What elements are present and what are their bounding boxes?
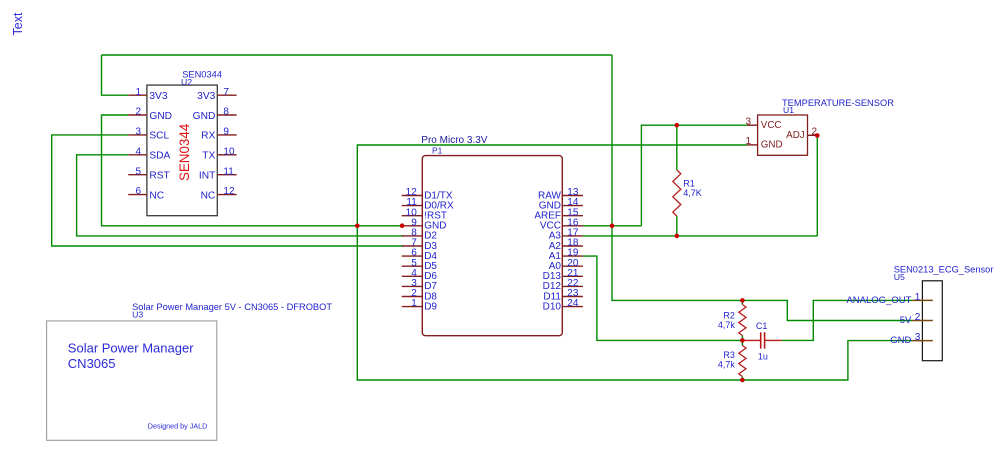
svg-text:5V: 5V [900, 315, 912, 326]
wire 5V long vertical to R2 top and U5 5V pin2 [612, 55, 912, 321]
U2 pin 12 NC [201, 186, 237, 201]
resistor R2 4,7k [718, 305, 746, 336]
wire GND branch down and right to U5 GND pin3 [357, 226, 912, 380]
P1 pin 2 D8 [402, 288, 438, 302]
P1 pin 3 D7 [402, 278, 438, 292]
U2 pin 9 RX [201, 127, 236, 142]
U2 pin 7 3V3 [197, 87, 236, 102]
P1 pin 23 D11 [543, 288, 583, 302]
U5 pin 3 GND [890, 332, 933, 346]
junction GND row / U1-U5 branch [355, 224, 360, 229]
junction R3 bottom / GND row [740, 378, 745, 383]
svg-text:D10: D10 [543, 301, 562, 312]
P1 pin 14 GND [539, 197, 583, 211]
IC U1 TEMPERATURE-SENSOR body [758, 115, 808, 155]
wire GND branch up to U1 GND pin1 [357, 145, 747, 226]
P1 pin 22 D12 [543, 278, 583, 292]
wire R3 bottom stub [741, 377, 743, 381]
wire from C1 right lead up to U5 ANALOG_OUT pin1 [782, 300, 913, 340]
svg-text:GND: GND [193, 111, 216, 122]
wire 5V drop to U2 pin1 3V3 [102, 55, 129, 95]
svg-text:D9: D9 [424, 301, 437, 312]
svg-text:VCC: VCC [761, 120, 782, 131]
svg-text:8: 8 [223, 107, 229, 118]
svg-text:6: 6 [135, 186, 141, 197]
U1 pin 2 ADJ [786, 127, 817, 141]
svg-text:GND: GND [761, 140, 783, 151]
U2 pin 1 3V3 [128, 87, 168, 102]
connector U5 SEN0213_ECG_Sensor body [922, 281, 942, 361]
junction R2 top / 5V row [740, 298, 745, 303]
svg-text:RX: RX [201, 131, 215, 142]
U5 pin 1 ANALOG_OUT [846, 292, 932, 306]
svg-text:3V3: 3V3 [197, 91, 215, 102]
capacitor C1 1u [742, 321, 782, 362]
P1 pin 7 D3 [402, 238, 438, 252]
svg-text:U2: U2 [181, 77, 192, 87]
svg-text:Designed by JALD: Designed by JALD [148, 422, 208, 431]
resistor R3 4,7k [718, 346, 746, 377]
IC U2 SEN0344 body [147, 85, 217, 216]
U2 reference label [181, 77, 192, 87]
svg-text:1: 1 [411, 298, 417, 309]
junction at P1 pin9 GND [400, 223, 405, 228]
wire R2 top stub [741, 300, 743, 304]
svg-text:SEN0213_ECG_Sensor: SEN0213_ECG_Sensor [894, 265, 994, 275]
svg-text:4,7k: 4,7k [718, 320, 736, 330]
wire R1 bottom lead [676, 216, 678, 236]
junction U1 ADJ pin2 [815, 133, 820, 138]
U2 inner vertical text SEN0344 [177, 123, 192, 181]
svg-text:1u: 1u [758, 351, 768, 361]
junction R1 bottom / A3 row [675, 234, 680, 239]
P1 pin 21 D13 [543, 268, 583, 282]
P1 pin 19 A1 [549, 248, 583, 262]
svg-text:7: 7 [223, 87, 229, 98]
wire A1 from P1 pin19 down to R2/R3 junction row [583, 256, 743, 340]
svg-text:1: 1 [135, 87, 141, 98]
svg-text:U5: U5 [894, 272, 905, 282]
svg-text:3: 3 [135, 127, 141, 138]
svg-text:U3: U3 [132, 309, 143, 319]
P1 pin 20 A0 [549, 258, 583, 272]
P1 pin 11 D0/RX [402, 197, 454, 211]
svg-text:GND: GND [149, 111, 172, 122]
P1 pin 6 D4 [402, 248, 438, 262]
P1 pin 17 A3 [549, 228, 583, 242]
U2 value label SEN0344 [182, 69, 222, 79]
U1 reference label [783, 105, 794, 115]
U2 pin 8 GND [193, 107, 237, 122]
U1 pin 3 VCC [746, 116, 782, 130]
wire R2-R3 middle stubs [741, 336, 743, 346]
svg-text:NC: NC [201, 190, 216, 201]
U3 inner text CN3065 [68, 356, 116, 371]
svg-text:P1: P1 [432, 146, 443, 156]
junction R2-R3 / C1 / A1 row [740, 338, 745, 343]
U1 pin 1 GND [746, 136, 783, 150]
U2 pin 4 SDA [128, 146, 170, 161]
P1 pin 1 D9 [402, 298, 438, 312]
U2 pin 2 GND [128, 107, 172, 122]
wire VCC riser to U1 VCC pin3 [641, 125, 747, 226]
svg-text:RST: RST [149, 171, 169, 182]
svg-text:24: 24 [567, 298, 579, 309]
svg-text:NC: NC [149, 190, 164, 201]
svg-text:TX: TX [202, 151, 215, 162]
U5 value label SEN0213_ECG_Sensor [894, 265, 994, 275]
svg-text:Solar Power Manager 5V - CN306: Solar Power Manager 5V - CN3065 - DFROBO… [132, 302, 332, 312]
wire ADJ vertical from U1 pin2 down to A3 row [815, 135, 817, 236]
wire R1 top lead [676, 125, 678, 170]
svg-text:INT: INT [199, 171, 215, 182]
wire 5V top horizontal from U2 area to right vertical [102, 54, 613, 56]
svg-text:Text: Text [11, 12, 25, 35]
svg-text:CN3065: CN3065 [68, 356, 116, 371]
svg-text:SCL: SCL [149, 131, 169, 142]
svg-text:4,7k: 4,7k [718, 359, 736, 369]
P1 value label Pro Micro 3.3V [421, 135, 487, 146]
U5 pin 2 5V [900, 312, 933, 326]
U1 value label TEMPERATURE-SENSOR [782, 98, 894, 108]
resistor R1 4,7K [673, 170, 702, 216]
block U3 Solar Power Manager body [47, 321, 217, 440]
P1 pin 9 GND [402, 217, 447, 231]
U2 pin 6 NC [128, 186, 164, 201]
P1 pin 18 A2 [549, 238, 583, 252]
svg-text:9: 9 [223, 127, 229, 138]
svg-text:1: 1 [746, 136, 752, 147]
U3 value label Solar Power Manager 5V - CN3065 - DFROBOT [132, 302, 332, 312]
svg-text:ANALOG_OUT: ANALOG_OUT [846, 295, 911, 306]
U2 pin 11 INT [199, 166, 237, 181]
svg-text:3: 3 [746, 116, 752, 127]
svg-text:10: 10 [223, 146, 235, 157]
P1 pin 4 D6 [402, 268, 438, 282]
svg-text:Pro Micro 3.3V: Pro Micro 3.3V [421, 135, 487, 146]
U3 reference label [132, 309, 143, 319]
U3 inner text Designed by JALD [148, 422, 208, 431]
U2 pin 5 RST [128, 166, 170, 181]
svg-text:SEN0344: SEN0344 [177, 123, 192, 181]
svg-text:4: 4 [135, 146, 141, 157]
IC P1 Pro Micro 3.3V body [422, 156, 562, 336]
svg-text:Solar Power Manager: Solar Power Manager [68, 340, 194, 355]
svg-text:C1: C1 [756, 321, 768, 331]
U2 pin 10 TX [202, 146, 236, 161]
svg-text:11: 11 [223, 166, 234, 177]
junction VCC row / 5V vertical [610, 224, 615, 229]
svg-text:3: 3 [915, 332, 921, 343]
P1 pin 8 D2 [402, 228, 438, 242]
P1 pin 5 D5 [402, 258, 438, 272]
svg-text:TEMPERATURE-SENSOR: TEMPERATURE-SENSOR [782, 98, 894, 108]
P1 pin 10 !RST [402, 207, 447, 221]
U3 inner text Solar Power Manager [68, 340, 194, 355]
svg-text:R1: R1 [683, 178, 695, 188]
svg-text:5: 5 [135, 166, 141, 177]
junction R1 top / VCC row [675, 123, 680, 128]
wire GND from U2 pin2 down-left to P1 pin9 [102, 115, 404, 226]
wire SDA from U2 pin4 to P1 pin8 D2 [77, 155, 403, 236]
svg-text:ADJ: ADJ [786, 130, 805, 141]
svg-text:U1: U1 [783, 105, 794, 115]
wire VCC from P1 pin16 to riser [583, 225, 642, 227]
P1 pin 24 D10 [543, 298, 583, 312]
wire A3 row from P1 pin17 to ADJ riser [583, 235, 818, 237]
svg-text:12: 12 [223, 186, 235, 197]
P1 pin 16 VCC [540, 217, 583, 231]
P1 pin 15 AREF [534, 207, 583, 221]
text label "Text" [11, 12, 25, 35]
P1 pin 12 D1/TX [402, 187, 453, 201]
svg-text:1: 1 [915, 292, 921, 303]
svg-text:2: 2 [915, 312, 921, 323]
svg-text:SDA: SDA [149, 151, 170, 162]
svg-text:2: 2 [135, 107, 141, 118]
P1 reference label [432, 146, 443, 156]
U5 reference label [894, 272, 905, 282]
svg-text:GND: GND [890, 335, 911, 346]
svg-text:4,7K: 4,7K [683, 188, 702, 198]
wire SCL from U2 pin3 to P1 pin7 D3 [52, 135, 403, 246]
svg-text:3V3: 3V3 [149, 91, 167, 102]
U2 pin 3 SCL [128, 127, 169, 142]
P1 pin 13 RAW [538, 187, 583, 201]
